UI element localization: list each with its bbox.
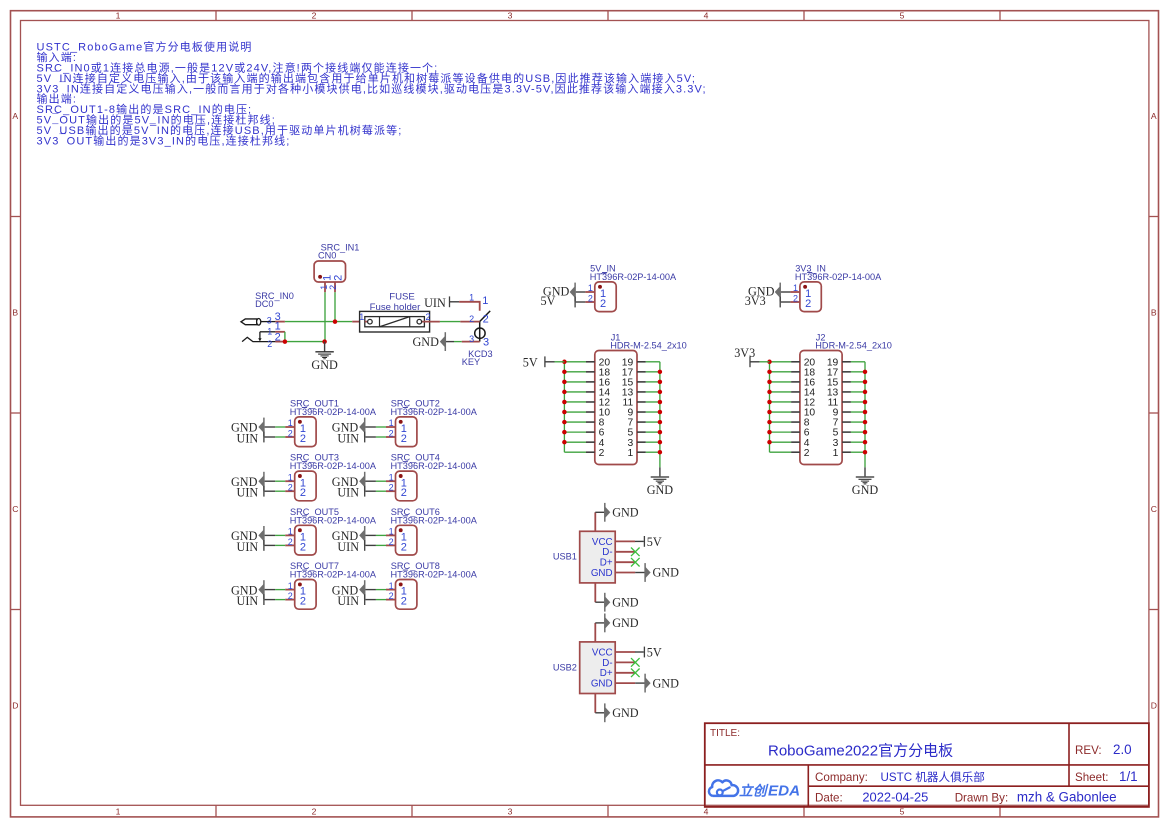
wire SRC_OUT3 pin2 to UIN flag: [265, 490, 286, 492]
USB1 D- pin stub: [615, 551, 635, 553]
svg-text:USTC 机器人俱乐部: USTC 机器人俱乐部: [881, 770, 985, 784]
Date row: [815, 789, 1117, 804]
connector 3V3_IN (HT396R-02P-14-00A) labels: [795, 264, 882, 283]
connector 5V_IN body: [595, 282, 616, 312]
USB1 reference label: [553, 552, 577, 562]
Company row: [815, 770, 985, 784]
svg-text:5V: 5V: [523, 355, 538, 369]
SRC_OUT2 pin 2 stub: [386, 436, 396, 438]
ground flag GND at SRC_OUT8 pin1: [332, 580, 366, 599]
net flag UIN at SRC_OUT2 pin2: [337, 431, 365, 445]
ground flag GND at 5V_IN pin1: [543, 283, 576, 302]
svg-text:5V: 5V: [647, 646, 662, 660]
SRC_OUT1 pin names: [300, 423, 306, 445]
connector SRC_OUT1 body: [295, 417, 316, 447]
wires J2 left pins to bus: [770, 362, 792, 452]
svg-text:2.0: 2.0: [1113, 742, 1132, 757]
net flag UIN at SRC_OUT1 pin2: [237, 431, 265, 445]
wire UIN flag to switch pin1: [450, 301, 460, 303]
junction dots J1 right bus: [658, 370, 663, 455]
svg-text:FUSE: FUSE: [389, 291, 415, 302]
SRC_OUT3 pin names: [300, 477, 306, 499]
wire SRC_OUT4 pin1 to GND flag: [365, 480, 386, 482]
ground earth symbol below J1: [647, 477, 674, 497]
svg-text:VCC: VCC: [592, 647, 613, 658]
CN0 pin 2 stub: [334, 282, 336, 292]
SRC_OUT6 pin numbers: [389, 527, 394, 547]
3V3_IN pin 1 stub: [790, 291, 800, 293]
USB1 GND pin stub and wire: [615, 572, 644, 574]
connector SRC_OUT8 body: [396, 580, 417, 610]
USB1 pin names VCC D- D+ GND: [591, 537, 613, 579]
USB2 pin names VCC D- D+ GND: [591, 647, 613, 689]
SRC_OUT7 pin names: [300, 586, 306, 608]
svg-text:2: 2: [401, 541, 407, 553]
5V_IN pin 1 stub: [585, 291, 595, 293]
ground flag GND at switch pin3: [412, 332, 446, 351]
wire CN0 pin2 down to upper node: [334, 292, 336, 321]
ground flag GND at SRC_OUT5 pin1: [231, 526, 265, 545]
svg-text:GND: GND: [412, 335, 439, 349]
connector SRC_OUT6 body: [396, 525, 417, 555]
wire SRC_OUT8 pin1 to GND flag: [365, 589, 386, 591]
junction dots J1 left bus: [562, 360, 567, 445]
SRC_OUT4 pin 2 stub: [386, 490, 396, 492]
svg-text:2: 2: [288, 591, 293, 601]
connector SRC_OUT3 body: [295, 471, 316, 501]
svg-text:2: 2: [426, 312, 431, 322]
wire SRC_OUT7 pin2 to UIN flag: [265, 599, 286, 601]
svg-text:UIN: UIN: [337, 594, 359, 608]
SRC_OUT3 pin numbers: [288, 472, 293, 492]
svg-text:3: 3: [469, 334, 474, 344]
SRC_OUT6 pin 1 stub: [386, 534, 396, 536]
junction dots J2 left bus: [767, 360, 772, 445]
wire stem to center ground: [324, 342, 326, 352]
net flag 3V3 feeding J2: [734, 346, 755, 367]
wire SRC_OUT8 pin2 to UIN flag: [365, 599, 386, 601]
wire SRC_OUT4 pin2 to UIN flag: [365, 490, 386, 492]
svg-text:mzh & Gabonlee: mzh & Gabonlee: [1017, 789, 1117, 804]
SRC_OUT3 pin 2 stub: [285, 490, 295, 492]
svg-text:1: 1: [482, 295, 488, 307]
switch KEY pin numbers and names: [469, 292, 489, 348]
wire 5V flag to J1 bus: [545, 361, 565, 363]
wire 5V_IN pin2 to 5V flag: [576, 301, 586, 303]
no-connect flag at USB2 D-: [631, 658, 640, 667]
row tick marks left ruler: [11, 217, 21, 610]
svg-text:2: 2: [333, 275, 345, 281]
Sheet label and value 1/1: [1075, 769, 1138, 784]
connector SRC_OUT2 body: [396, 417, 417, 447]
svg-text:GND: GND: [311, 358, 338, 372]
net flag UIN at SRC_OUT8 pin2: [337, 594, 365, 608]
svg-text:2: 2: [389, 591, 394, 601]
svg-text:1: 1: [389, 581, 394, 591]
usb receptacle USB1 body: [580, 531, 616, 583]
net flag 5V at USB1 VCC: [644, 535, 662, 549]
svg-text:USB1: USB1: [553, 552, 577, 562]
connector SRC_OUT6 (HT396R-02P-14-00A) labels: [391, 507, 478, 526]
header J1 body: [595, 351, 637, 465]
connector SRC_OUT1 (HT396R-02P-14-00A) labels: [290, 399, 377, 418]
net flag 5V at 5V_IN pin2: [540, 294, 575, 308]
wire bus J1 right vertical down to ground: [659, 362, 661, 477]
net flag UIN at SRC_OUT6 pin2: [337, 540, 365, 554]
USB2 D+ pin stub: [615, 672, 635, 674]
switch KEY pin1 stub: [459, 302, 480, 311]
svg-text:Sheet:: Sheet:: [1075, 771, 1109, 784]
SRC_OUT8 pin 2 stub: [386, 599, 396, 601]
svg-text:2: 2: [401, 596, 407, 608]
wires J1 right pins to bus: [646, 362, 660, 452]
3V3_IN pin names: [805, 288, 811, 310]
connector SRC_OUT8 (HT396R-02P-14-00A) labels: [391, 561, 478, 580]
title block TITLE label: [710, 728, 740, 739]
svg-text:1: 1: [469, 292, 474, 302]
SRC_OUT3 pin 1 stub: [285, 480, 295, 482]
header J1 HDR-M-2.54_2x10 labels: [610, 333, 687, 351]
SRC_OUT1 pin 2 stub: [285, 436, 295, 438]
svg-text:2: 2: [312, 806, 317, 816]
CN0 pin 1 stub: [324, 282, 326, 292]
svg-text:1: 1: [116, 806, 121, 816]
svg-text:1: 1: [267, 326, 272, 336]
svg-text:2: 2: [312, 10, 317, 20]
svg-text:UIN: UIN: [237, 431, 259, 445]
column tick marks bottom ruler: [216, 805, 1000, 817]
svg-text:GND: GND: [591, 568, 613, 579]
SRC_OUT5 pin 2 stub: [285, 544, 295, 546]
connector SRC_OUT7 body: [295, 580, 316, 610]
svg-text:2: 2: [300, 541, 306, 553]
ground flag GND at USB1 top shield: [604, 503, 639, 522]
row tick marks right ruler: [1149, 217, 1159, 610]
3V3_IN pin 2 stub: [790, 301, 800, 303]
ground flag GND at USB2 bottom shield: [604, 703, 639, 722]
svg-text:B: B: [12, 307, 18, 317]
svg-text:HT396R-02P-14-00A: HT396R-02P-14-00A: [391, 407, 478, 417]
5V_IN pin numbers: [588, 283, 593, 303]
svg-text:GND: GND: [653, 566, 680, 580]
USB2 D- pin stub: [615, 661, 635, 663]
ground earth symbol center GND: [311, 352, 338, 372]
header J2 body: [800, 351, 842, 465]
net flag 5V feeding J1: [523, 355, 546, 369]
svg-text:2: 2: [389, 483, 394, 493]
connector SRC_OUT2 (HT396R-02P-14-00A) labels: [391, 399, 478, 418]
ground flag GND at USB2 top shield: [604, 614, 639, 633]
svg-text:立创: 立创: [739, 783, 769, 799]
no-connect flag at USB1 D-: [631, 548, 640, 557]
wire switch pin3 to GND flag: [446, 341, 462, 343]
svg-text:2: 2: [389, 428, 394, 438]
svg-text:HT396R-02P-14-00A: HT396R-02P-14-00A: [290, 461, 377, 471]
svg-text:HDR-M-2.54_2x10: HDR-M-2.54_2x10: [815, 340, 892, 350]
svg-text:1: 1: [389, 418, 394, 428]
SRC_OUT7 pin 1 stub: [285, 589, 295, 591]
svg-text:KEY: KEY: [462, 357, 480, 367]
ground earth symbol below J2: [852, 477, 879, 497]
wire 5V_IN pin1 to GND flag: [576, 291, 586, 293]
svg-text:UIN: UIN: [337, 540, 359, 554]
svg-text:2: 2: [588, 293, 593, 303]
ground flag GND at USB1 GND pin: [644, 563, 679, 582]
column tick marks top ruler: [216, 11, 1000, 21]
REV label and value 2.0: [1075, 742, 1132, 757]
svg-text:3: 3: [508, 806, 513, 816]
svg-text:HT396R-02P-14-00A: HT396R-02P-14-00A: [391, 570, 478, 580]
no-connect flag at USB2 D+: [631, 669, 640, 678]
fuse FUSE Fuse holder labels: [370, 291, 421, 312]
svg-text:5V: 5V: [540, 294, 555, 308]
ground flag GND at USB1 bottom shield: [604, 593, 639, 612]
wire SRC_OUT6 pin2 to UIN flag: [365, 544, 386, 546]
svg-text:2: 2: [389, 537, 394, 547]
USB2 shield pin top: [595, 623, 604, 642]
wire 3V3 flag to J2 bus: [750, 361, 770, 363]
svg-text:5: 5: [900, 10, 905, 20]
title block frame: [705, 723, 1149, 807]
connector DC0 SRC_IN0 labels: [255, 291, 294, 309]
svg-text:2: 2: [288, 537, 293, 547]
5V_IN pin 2 stub: [585, 301, 595, 303]
connector SRC_OUT4 (HT396R-02P-14-00A) labels: [391, 453, 478, 472]
ground flag GND at SRC_OUT6 pin1: [332, 526, 366, 545]
wire DC0 pin1 down to node: [284, 332, 286, 342]
svg-text:Date:: Date:: [815, 791, 843, 804]
wire upper node: DC0 pin3 to fuse pin1: [285, 321, 352, 323]
net flag UIN at SRC_OUT4 pin2: [337, 486, 365, 500]
svg-text:1: 1: [389, 527, 394, 537]
svg-text:USB2: USB2: [553, 662, 577, 672]
net flag UIN at SRC_OUT5 pin2: [237, 540, 265, 554]
DC0 pin 3 stub: [275, 321, 285, 323]
svg-text:UIN: UIN: [424, 296, 446, 310]
svg-text:GND: GND: [591, 679, 613, 690]
wire bus J2 left vertical: [769, 362, 771, 452]
ground flag GND at USB2 GND pin: [644, 674, 679, 693]
wire SRC_OUT2 pin1 to GND flag: [365, 426, 386, 428]
svg-text:1: 1: [288, 418, 293, 428]
svg-text:2: 2: [300, 487, 306, 499]
svg-text:3V3: 3V3: [745, 294, 766, 308]
wire bus J2 right vertical down to ground: [864, 362, 866, 477]
header J2 left pin stubs: [791, 362, 800, 452]
CN0 pin numbers 1 2 (rotated): [319, 285, 338, 290]
5V_IN pin names: [600, 288, 606, 310]
SRC_OUT7 pin 2 stub: [285, 599, 295, 601]
svg-text:EDA: EDA: [768, 783, 800, 800]
header J2 right pin numbers: [827, 357, 839, 458]
switch KEY pin2 stub: [460, 321, 479, 323]
wire SRC_OUT6 pin1 to GND flag: [365, 534, 386, 536]
DC0 pin 1 stub: [275, 331, 285, 333]
net flag UIN: [424, 296, 450, 310]
svg-text:Company:: Company:: [815, 771, 868, 784]
svg-text:2: 2: [401, 487, 407, 499]
SRC_OUT4 pin names: [401, 477, 407, 499]
schematic usage notes (blue annotation text): [37, 40, 707, 148]
header J1 right pin numbers: [622, 357, 634, 458]
svg-text:1: 1: [627, 448, 633, 459]
svg-text:GND: GND: [647, 483, 674, 497]
connector SRC_OUT7 (HT396R-02P-14-00A) labels: [290, 561, 377, 580]
header J1 left pin numbers: [599, 357, 611, 458]
row letters left: [12, 111, 18, 711]
svg-text:5V: 5V: [647, 535, 662, 549]
no-connect flag at USB1 D+: [631, 558, 640, 567]
svg-text:2: 2: [275, 331, 281, 343]
svg-text:GND: GND: [612, 595, 639, 609]
SRC_OUT7 pin numbers: [288, 581, 293, 601]
SRC_OUT6 pin names: [401, 532, 407, 554]
row letters right: [1151, 111, 1157, 711]
svg-text:1/1: 1/1: [1119, 769, 1138, 784]
switch KEY body (blade, lamp circle): [475, 311, 491, 342]
USB2 reference label: [553, 662, 577, 672]
svg-text:GND: GND: [852, 483, 879, 497]
3V3_IN pin numbers: [793, 283, 798, 303]
svg-text:3: 3: [508, 10, 513, 20]
svg-text:2: 2: [267, 339, 272, 349]
svg-text:A: A: [1151, 111, 1157, 121]
wire bus J1 left vertical: [563, 362, 565, 452]
SRC_OUT5 pin 1 stub: [285, 534, 295, 536]
wire SRC_OUT7 pin1 to GND flag: [265, 589, 286, 591]
column numbers top: [116, 10, 905, 20]
svg-text:2: 2: [793, 293, 798, 303]
svg-text:Drawn By:: Drawn By:: [955, 791, 1008, 804]
USB2 VCC pin stub and wire to 5V flag: [615, 651, 644, 653]
svg-text:HT396R-02P-14-00A: HT396R-02P-14-00A: [590, 272, 677, 282]
svg-text:A: A: [12, 111, 18, 121]
SRC_OUT1 pin numbers: [288, 418, 293, 438]
svg-text:2: 2: [483, 314, 489, 326]
SRC_OUT4 pin numbers: [389, 472, 394, 492]
svg-text:1: 1: [288, 472, 293, 482]
wire SRC_OUT5 pin2 to UIN flag: [265, 544, 286, 546]
wire 3V3_IN pin2 to 3V3 flag: [781, 301, 791, 303]
svg-text:3V3¯IN连接自定义电压输入,一般而言用于对各种小模块供电: 3V3¯IN连接自定义电压输入,一般而言用于对各种小模块供电,比如巡线模块,驱动…: [37, 81, 707, 95]
svg-text:HT396R-02P-14-00A: HT396R-02P-14-00A: [290, 515, 377, 525]
wire SRC_OUT5 pin1 to GND flag: [265, 534, 286, 536]
USB1 VCC pin stub and wire to 5V flag: [615, 540, 644, 542]
SRC_OUT4 pin 1 stub: [386, 480, 396, 482]
svg-text:3V3¯OUT输出的是3V3_IN的电压,连接杜邦线;: 3V3¯OUT输出的是3V3_IN的电压,连接杜邦线;: [37, 133, 291, 147]
svg-text:UIN: UIN: [237, 540, 259, 554]
svg-text:2: 2: [328, 285, 338, 290]
svg-text:HT396R-02P-14-00A: HT396R-02P-14-00A: [290, 407, 377, 417]
DC0 pin 2 stub: [275, 341, 285, 343]
CN0 pin names 1 2 (rotated): [322, 275, 345, 281]
svg-text:GND: GND: [612, 506, 639, 520]
connector CN0 SRC_IN1 labels: [318, 243, 359, 261]
ground flag GND at SRC_OUT1 pin1: [231, 418, 265, 437]
svg-text:GND: GND: [612, 616, 639, 630]
DC barrel jack DC0 body: [241, 319, 275, 342]
SRC_OUT5 pin names: [300, 532, 306, 554]
svg-text:2: 2: [804, 448, 810, 459]
header J1 left pin stubs: [586, 362, 595, 452]
switch KEY KCD3 labels: [462, 349, 493, 367]
junction dots J2 right bus: [863, 370, 868, 455]
svg-text:1: 1: [359, 312, 364, 322]
SRC_OUT8 pin 1 stub: [386, 589, 396, 591]
USB1 shield pin bottom: [595, 583, 604, 602]
svg-text:2: 2: [288, 428, 293, 438]
header J2 right pin stubs: [842, 362, 851, 452]
wires J2 right pins to bus: [851, 362, 865, 452]
svg-text:2: 2: [300, 433, 306, 445]
svg-text:RoboGame2022官方分电板: RoboGame2022官方分电板: [768, 741, 953, 759]
svg-text:D: D: [12, 700, 18, 710]
svg-text:GND: GND: [653, 676, 680, 690]
svg-text:B: B: [1151, 307, 1157, 317]
svg-text:1: 1: [116, 10, 121, 20]
switch KEY pin3 stub: [462, 341, 480, 343]
USB2 shield pin bottom: [595, 694, 604, 713]
svg-text:HT396R-02P-14-00A: HT396R-02P-14-00A: [391, 515, 478, 525]
svg-text:2: 2: [300, 596, 306, 608]
svg-text:1: 1: [588, 283, 593, 293]
header J2 left pin numbers: [804, 357, 816, 458]
wire SRC_OUT2 pin2 to UIN flag: [365, 436, 386, 438]
svg-text:HT396R-02P-14-00A: HT396R-02P-14-00A: [391, 461, 478, 471]
svg-text:1: 1: [288, 527, 293, 537]
net flag 3V3 at 3V3_IN pin2: [745, 294, 781, 308]
connector SRC_OUT5 (HT396R-02P-14-00A) labels: [290, 507, 377, 526]
junction dot CN0 pin2 on upper wire: [333, 319, 338, 324]
svg-text:2: 2: [469, 314, 474, 324]
junction dot CN0 pin1 on lower wire: [322, 339, 327, 344]
SRC_OUT8 pin names: [401, 586, 407, 608]
net flag 5V at USB2 VCC: [644, 646, 662, 660]
USB1 D+ pin stub: [615, 561, 635, 563]
schematic title RoboGame2022官方分电板: [768, 741, 953, 759]
svg-text:3V3: 3V3: [734, 346, 755, 360]
SRC_OUT2 pin 1 stub: [386, 426, 396, 428]
header J2 HDR-M-2.54_2x10 labels: [815, 333, 892, 351]
header J1 right pin stubs: [637, 362, 646, 452]
svg-text:CN0: CN0: [318, 251, 336, 261]
SRC_OUT6 pin 2 stub: [386, 544, 396, 546]
svg-text:D-: D-: [602, 547, 612, 558]
wire 3V3_IN pin1 to GND flag: [781, 291, 791, 293]
svg-text:3: 3: [267, 315, 272, 325]
column numbers bottom: [116, 806, 905, 816]
USB1 shield pin top: [595, 512, 604, 531]
svg-text:TITLE:: TITLE:: [710, 728, 740, 739]
SRC_OUT2 pin numbers: [389, 418, 394, 438]
svg-text:1: 1: [793, 283, 798, 293]
SRC_OUT8 pin numbers: [389, 581, 394, 601]
wire fuse pin2 to switch pin2: [440, 321, 460, 323]
SRC_OUT2 pin names: [401, 423, 407, 445]
svg-text:2: 2: [401, 433, 407, 445]
svg-text:GND: GND: [612, 706, 639, 720]
svg-text:VCC: VCC: [592, 537, 613, 548]
connector 3V3_IN body: [800, 282, 821, 312]
wire SRC_OUT1 pin2 to UIN flag: [265, 436, 286, 438]
net flag UIN at SRC_OUT7 pin2: [237, 594, 265, 608]
svg-text:D: D: [1151, 700, 1157, 710]
ground flag GND at SRC_OUT7 pin1: [231, 580, 265, 599]
wires J1 left pins to bus: [564, 362, 586, 452]
svg-text:2: 2: [599, 448, 605, 459]
svg-text:2: 2: [805, 298, 811, 310]
fuse F1 body: [352, 311, 440, 332]
